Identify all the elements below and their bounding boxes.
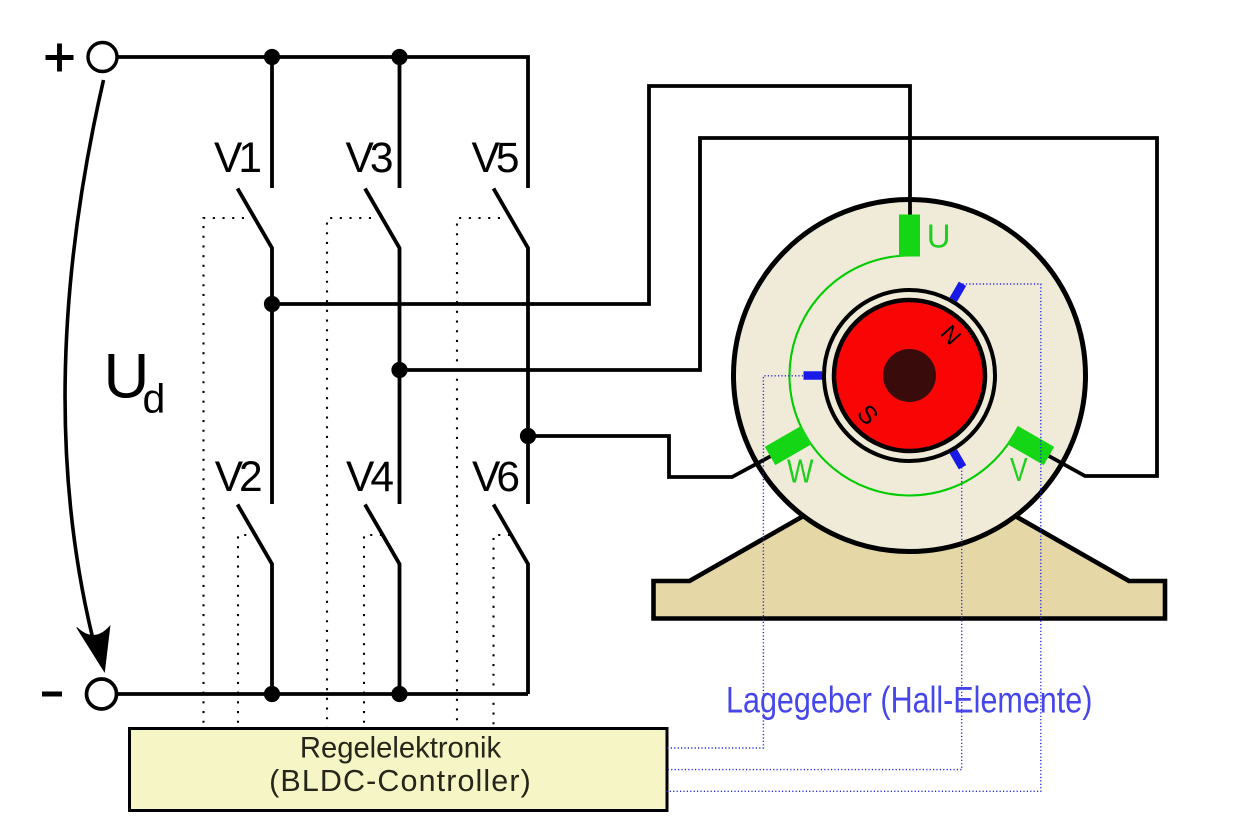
hall wire 3 dotted <box>666 376 803 748</box>
node mid phase3 <box>520 428 536 444</box>
svg-text:V2: V2 <box>215 454 263 501</box>
wire phase V <box>400 138 1158 476</box>
node top V3 <box>391 49 407 65</box>
hall wire 1 dotted <box>666 284 1041 791</box>
node bottom V2 <box>264 686 280 702</box>
switch V1 <box>238 189 273 505</box>
rotor magnet <box>834 300 985 451</box>
minus sign <box>42 692 62 697</box>
svg-text:Lagegeber (Hall-Elemente): Lagegeber (Hall-Elemente) <box>726 680 1092 721</box>
rotor pole labels N S <box>849 320 969 431</box>
wire phase W <box>528 436 771 477</box>
svg-text:V1: V1 <box>214 135 262 182</box>
wire V1 column stub <box>270 57 274 188</box>
rotor outer ring <box>824 290 995 461</box>
control line V6 dotted <box>494 535 511 728</box>
motor foot <box>654 456 1166 619</box>
top rail wire <box>118 57 528 188</box>
control line V3 dotted <box>327 218 371 728</box>
svg-text:U: U <box>927 218 951 255</box>
control line V5 dotted <box>457 218 500 728</box>
plus terminal circle <box>88 43 117 72</box>
rotor shaft <box>883 349 936 402</box>
switch V3 <box>365 189 400 505</box>
plus sign <box>46 44 74 72</box>
wire phase U <box>272 86 910 304</box>
node bottom V4 <box>391 686 407 702</box>
node mid phase2 <box>391 362 407 378</box>
switch V4 <box>365 505 400 695</box>
hall wire 2 dotted <box>666 467 962 769</box>
coil U <box>899 215 920 257</box>
svg-text:Regelelektronik: Regelelektronik <box>300 733 502 765</box>
switch V6 <box>494 505 529 695</box>
label Ud <box>104 342 166 422</box>
hall sensor 1 (30deg) <box>950 282 967 302</box>
minus terminal circle <box>87 679 117 709</box>
Ud arrow arc <box>65 80 103 655</box>
hall sensor 2 (150deg) <box>950 449 967 469</box>
control line V2 dotted <box>238 535 256 728</box>
node top V1 <box>264 49 280 65</box>
svg-text:V6: V6 <box>472 454 520 501</box>
wire V3 column stub <box>398 57 402 188</box>
svg-text:d: d <box>143 376 166 422</box>
svg-text:(BLDC-Controller): (BLDC-Controller) <box>269 764 532 798</box>
node mid phase1 <box>264 296 280 312</box>
svg-text:W: W <box>787 453 814 490</box>
switch V5 <box>494 189 529 505</box>
svg-text:V: V <box>1010 452 1028 488</box>
controller box Regelelektronik <box>130 729 668 811</box>
coil V <box>1007 426 1054 465</box>
stator winding arc <box>789 256 1013 496</box>
bottom rail wire <box>117 692 529 696</box>
svg-text:V3: V3 <box>346 135 394 182</box>
coil W <box>765 426 812 465</box>
motor stator housing <box>734 200 1086 552</box>
control line V4 dotted <box>364 535 382 728</box>
svg-text:V5: V5 <box>472 135 520 182</box>
control line V1 dotted <box>204 218 245 728</box>
switch V2 <box>238 505 273 695</box>
svg-text:V4: V4 <box>346 454 394 501</box>
hall sensor 3 (270deg) <box>804 371 823 380</box>
Ud arrowhead <box>77 627 110 672</box>
